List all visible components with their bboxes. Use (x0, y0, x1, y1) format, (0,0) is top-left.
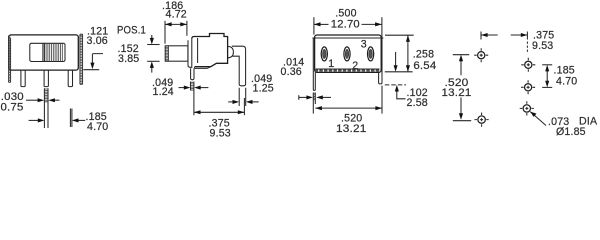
leg extension lines (239, 88, 246, 106)
svg-text:4.70: 4.70 (556, 76, 577, 88)
leg bottom extension line (385, 84, 406, 86)
.049/1.25 dim arrows at leg (228, 101, 234, 103)
terminal 3 (368, 47, 374, 61)
.073 DIA leader line (530, 112, 546, 126)
svg-text:3.06: 3.06 (87, 35, 108, 47)
side view detent bump (228, 46, 234, 57)
pin 2 / pin 3 extension lines for .185 (70, 109, 72, 128)
leader of .121 dim (elbow + down arrow) (92, 54, 103, 64)
front view knob serrations (46, 44, 62, 61)
.258 bottom extension line (385, 71, 413, 73)
hole pattern: right bottom hole (520, 101, 534, 115)
svg-text:.258: .258 (413, 48, 434, 60)
side view inner vertical line (197, 38, 199, 63)
bottom view left leg (313, 38, 315, 90)
side view hook wire / support leg (232, 46, 246, 86)
svg-text:13.21: 13.21 (442, 87, 472, 99)
bottom view right leg (379, 38, 382, 84)
bottom view hatch band (315, 69, 381, 71)
front view pin 2 (44, 70, 48, 87)
.258 dim vertical line with arrows (407, 35, 409, 72)
pin extension lines (191, 82, 194, 116)
.520 dim line with arrows (315, 107, 382, 109)
side view front pin (191, 68, 194, 80)
.500 dim line and extension lines (313, 17, 315, 34)
svg-text:9.53: 9.53 (532, 40, 553, 52)
front view left side plate below body (9, 36, 11, 83)
svg-text:0.75: 0.75 (1, 101, 24, 113)
svg-text:0.36: 0.36 (281, 66, 302, 78)
.375/9.53 dim between top holes (480, 32, 482, 40)
svg-text:POS.1: POS.1 (117, 25, 146, 37)
svg-text:1.25: 1.25 (253, 83, 274, 95)
.102 upper down arrow (395, 52, 397, 66)
.375/9.53 dim under side view (243, 98, 245, 115)
.152 bottom tick and up arrow (147, 60, 159, 62)
.520 extension lines under bottom view (313, 86, 382, 114)
svg-text:9.53: 9.53 (210, 127, 231, 137)
svg-text:Ø1.85: Ø1.85 (556, 126, 586, 137)
terminal 2 (344, 47, 350, 61)
.520/13.21 dim left of hole pattern (453, 54, 469, 56)
front view slot (30, 43, 65, 61)
front view right side bracket (hatched strip) (80, 34, 83, 84)
.049/1.24 dim arrows at pin (179, 87, 185, 89)
side view bottom flange band (195, 67, 211, 69)
svg-text:1.24: 1.24 (153, 86, 174, 98)
svg-text:3.85: 3.85 (118, 53, 139, 65)
.185 dim arrows (29, 119, 40, 121)
bottom view cover plate (315, 35, 382, 72)
side view actuator shaft (165, 46, 188, 61)
bottom view inner frame lines (312, 38, 383, 69)
front view pin 3 (68, 70, 72, 87)
svg-text:4.70: 4.70 (87, 121, 108, 133)
.258 top extension line (385, 34, 414, 36)
hole pattern: right middle hole (521, 80, 535, 94)
.185/4.70 dim right of holes (542, 64, 552, 66)
svg-text:3: 3 (361, 38, 367, 50)
hole pattern: bottom left hole (475, 113, 489, 127)
svg-text:2: 2 (352, 60, 358, 72)
POS.1 / .152 top tick and down arrow (147, 44, 159, 46)
svg-text:6.54: 6.54 (413, 60, 436, 72)
side view front plate (188, 39, 192, 68)
side view body outline (192, 34, 228, 67)
pin 2 extension lines down (44, 88, 48, 128)
.186 dim line and extension lines (164, 21, 166, 44)
extension line of body bottom to the right (83, 69, 99, 71)
shaft serrated end (hatch) (167, 46, 169, 61)
.030 dim arrows at pin 2 (26, 99, 39, 101)
front view knob divider (43, 43, 45, 61)
.014 dim tick and arrows at view3 left leg (298, 95, 300, 100)
svg-text:.185: .185 (554, 64, 575, 76)
front view body outline (9, 35, 79, 70)
svg-text:13.21: 13.21 (336, 123, 367, 135)
svg-text:12.70: 12.70 (331, 18, 360, 30)
svg-text:1: 1 (328, 58, 334, 70)
terminal 1 (321, 47, 327, 61)
hole pattern: right top hole (521, 58, 535, 72)
.102 lower up arrow and leader (397, 91, 406, 99)
svg-text:4.72: 4.72 (166, 8, 187, 20)
hole pattern: top left hole (474, 48, 488, 62)
svg-text:2.58: 2.58 (407, 97, 428, 109)
front view pin 1 (21, 70, 25, 87)
